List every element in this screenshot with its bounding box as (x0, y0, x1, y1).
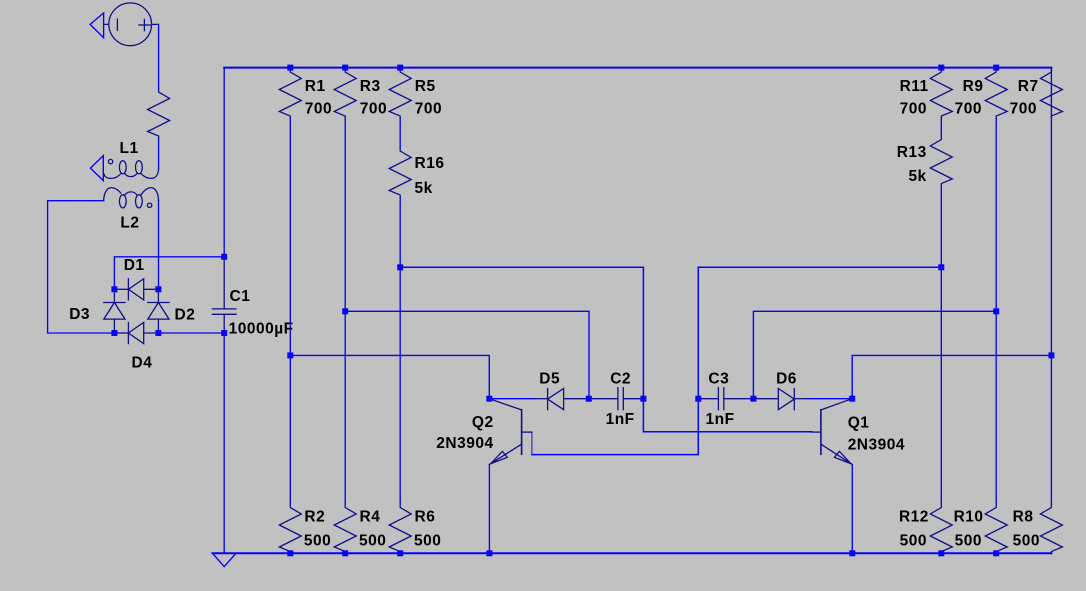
resistor R2 (279, 504, 301, 554)
svg-text:C3: C3 (708, 370, 729, 387)
svg-text:700: 700 (415, 100, 442, 117)
wire L2 left lead to bridge left corner (48, 201, 115, 333)
wire resistor to L1 (158, 138, 160, 168)
wire R16 to R6 column (399, 197, 401, 504)
svg-text:R10: R10 (954, 508, 984, 525)
svg-text:R5: R5 (415, 78, 436, 95)
resistor R5 (389, 68, 411, 118)
node R4 bottom (342, 550, 348, 556)
ground symbol at L1 (90, 156, 103, 181)
svg-text:500: 500 (900, 532, 927, 549)
node R3 top (342, 65, 348, 71)
resistor R9 (985, 68, 1007, 118)
node C1 bottom (221, 330, 227, 336)
wire Q2 collector to D5 cathode (489, 398, 534, 400)
svg-text:700: 700 (955, 100, 982, 117)
transistor Q2 (521, 410, 523, 455)
resistor R3 (334, 68, 356, 118)
diode D4 (114, 332, 128, 334)
wire Q2 base jog (531, 432, 533, 455)
wire Q1 emitter to ground rail (851, 465, 853, 554)
ground symbol at bottom rail (213, 553, 237, 566)
svg-text:D6: D6 (776, 370, 797, 387)
node R7 tap (1048, 352, 1054, 358)
wire D6 cathode to Q1 collector (808, 398, 853, 400)
svg-text:R11: R11 (900, 78, 929, 95)
svg-text:5k: 5k (415, 180, 433, 197)
svg-text:R4: R4 (360, 508, 381, 525)
wire C1 bottom to ground rail (223, 333, 225, 553)
node R12 bottom (938, 550, 944, 556)
voltage source pin stubs (104, 23, 109, 25)
diode D1 (114, 288, 128, 290)
node R9 tap (993, 308, 999, 314)
svg-text:700: 700 (1010, 100, 1037, 117)
diode D6 (753, 398, 778, 400)
node C1 top (221, 254, 227, 260)
svg-text:R16: R16 (415, 155, 445, 172)
svg-text:R6: R6 (415, 508, 436, 525)
svg-text:L2: L2 (120, 215, 139, 232)
wire bottom ground rail (213, 552, 1052, 554)
wire L2 right lead down to bridge D1 (158, 201, 160, 290)
svg-text:500: 500 (955, 532, 982, 549)
node R16 bottom (397, 264, 403, 270)
node R1 top (287, 65, 293, 71)
node Q2 collector (486, 396, 492, 402)
wire source to resistor (158, 24, 160, 88)
wire R9 to R10 column (995, 118, 997, 504)
node R1 tap (287, 352, 293, 358)
svg-text:R7: R7 (1018, 78, 1039, 95)
svg-text:10000µF: 10000µF (229, 321, 294, 338)
wire R7 to R8 column (1050, 68, 1052, 504)
wire R13 to R12 column (940, 186, 942, 504)
svg-text:D4: D4 (132, 355, 153, 372)
node R6 bottom (397, 550, 403, 556)
svg-text:Q2: Q2 (472, 414, 494, 431)
resistor R12 (930, 504, 952, 554)
svg-text:500: 500 (1013, 532, 1040, 549)
resistor R1 (279, 68, 301, 118)
L1 phase dot (108, 159, 112, 163)
node R10 bottom (993, 550, 999, 556)
inductor L1 (141, 168, 159, 179)
wire R1 node to Q2 collector (290, 355, 489, 398)
wire R13 node to Q2 base net (532, 267, 941, 454)
svg-text:R1: R1 (305, 78, 326, 95)
capacitor C1 (223, 257, 225, 309)
svg-text:2N3904: 2N3904 (436, 435, 493, 452)
svg-text:500: 500 (304, 532, 331, 549)
svg-text:D3: D3 (69, 306, 90, 323)
voltage source minus sign (116, 19, 118, 30)
node Q1 collector (849, 396, 855, 402)
diode D2 (157, 289, 159, 302)
wire R3 node to D5 anode (345, 311, 589, 398)
node D6 anode (750, 396, 756, 402)
svg-text:R12: R12 (899, 508, 929, 525)
wire R11 to R13 (940, 118, 942, 136)
node D5 anode (586, 396, 592, 402)
svg-text:D5: D5 (539, 370, 560, 387)
resistor R8 (1040, 504, 1062, 554)
svg-text:500: 500 (414, 532, 441, 549)
wire R3 to R4 column (344, 118, 346, 504)
node R13 bottom (938, 264, 944, 270)
voltage source V1 circle (109, 3, 152, 46)
wire bridge bottom to C1 bottom node (158, 332, 224, 334)
svg-text:R9: R9 (963, 78, 984, 95)
wire R5 to R16 (399, 118, 401, 147)
node R5 top (397, 65, 403, 71)
resistor R10 (985, 504, 1007, 554)
wire R16 node to Q1 base net (400, 267, 812, 432)
node bridge bottom right (155, 330, 161, 336)
resistor R13 (930, 136, 952, 186)
svg-text:Q1: Q1 (848, 414, 870, 431)
wire R7 node to Q1 collector (852, 355, 1051, 398)
diode D3 (113, 289, 115, 302)
L2 phase dot (147, 203, 151, 207)
svg-text:500: 500 (359, 532, 386, 549)
resistor R6 (389, 504, 411, 554)
svg-text:R3: R3 (360, 78, 381, 95)
resistor R11 (930, 68, 952, 118)
svg-text:R8: R8 (1013, 508, 1034, 525)
wire left vertical C1 column (top rail to C1 top) (223, 68, 225, 257)
svg-text:R13: R13 (897, 144, 927, 161)
wire top rail (224, 67, 1051, 69)
svg-text:700: 700 (360, 100, 387, 117)
transistor Q1 (820, 410, 822, 455)
resistor R4 (334, 504, 356, 554)
svg-text:700: 700 (305, 100, 332, 117)
inductor L2 (104, 188, 121, 201)
node C3 left (695, 396, 701, 402)
svg-text:700: 700 (900, 100, 927, 117)
capacitor C2 (589, 398, 618, 400)
node R2 bottom (287, 550, 293, 556)
resistor (unlabeled) top left (148, 88, 170, 138)
svg-text:D2: D2 (175, 307, 196, 324)
node R11 top (938, 65, 944, 71)
node C2 right (640, 396, 646, 402)
diode D5 (534, 398, 547, 400)
capacitor C3 (698, 398, 718, 400)
svg-text:C2: C2 (610, 370, 631, 387)
junction squares (111, 65, 1054, 557)
node Q1 emitter bottom (849, 550, 855, 556)
svg-text:L1: L1 (120, 140, 139, 157)
svg-text:2N3904: 2N3904 (848, 436, 905, 453)
wire R9 node to D6 anode (753, 311, 996, 398)
node R3 tap (342, 308, 348, 314)
node R9 top (993, 65, 999, 71)
resistor R7 (1040, 68, 1062, 118)
node bridge bottom left (111, 330, 117, 336)
wire R1 to R2 column (289, 118, 291, 504)
node bridge top right (155, 286, 161, 292)
node Q2 emitter bottom (486, 550, 492, 556)
svg-text:5k: 5k (908, 168, 926, 185)
wire bridge top to C1 top node (114, 257, 224, 290)
node bridge top left (111, 286, 117, 292)
svg-text:1nF: 1nF (706, 411, 735, 428)
resistor R16 (389, 147, 411, 197)
svg-text:C1: C1 (230, 288, 251, 305)
voltage source plus sign (143, 19, 145, 30)
svg-text:R2: R2 (304, 508, 325, 525)
svg-text:1nF: 1nF (606, 411, 635, 428)
ground symbol at source (90, 13, 104, 38)
wire Q2 emitter to ground rail (488, 465, 490, 554)
svg-text:D1: D1 (124, 257, 145, 274)
